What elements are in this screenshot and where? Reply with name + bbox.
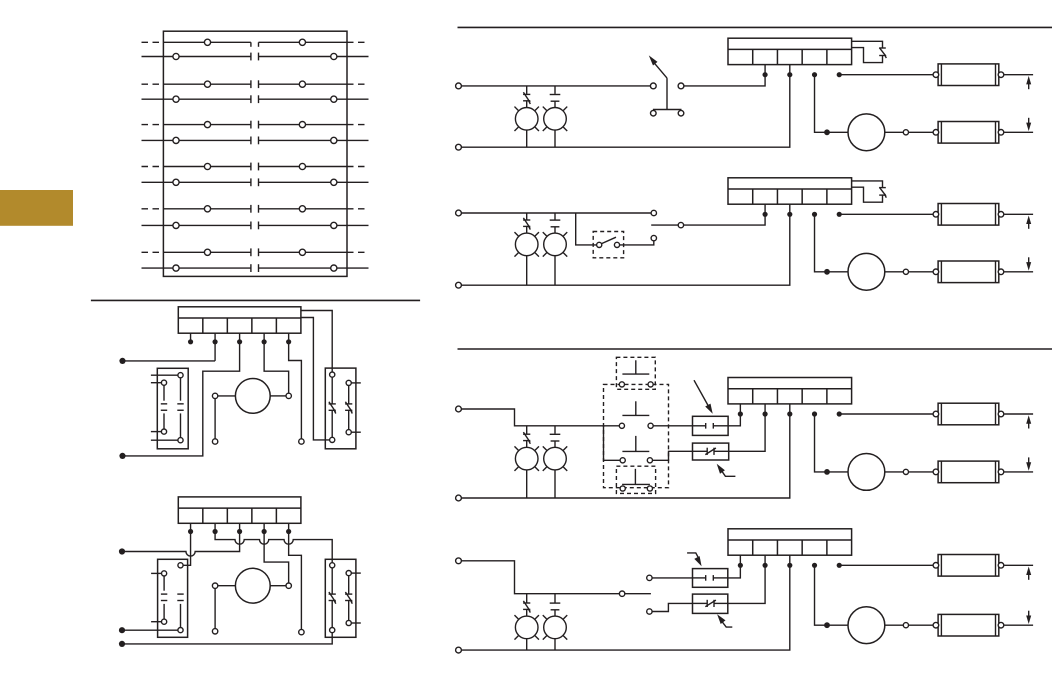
wire terminal 1 to LB2 top-right contact — [183, 532, 191, 566]
TB-C outline — [728, 378, 852, 404]
TB1 cell divider 4 — [275, 318, 277, 333]
bypass switch dashed enclosure — [593, 232, 623, 258]
row 7 terminals — [204, 163, 210, 169]
row 2 terminals — [173, 53, 179, 59]
arrow to coil box — [687, 553, 700, 560]
H2A output wire — [1004, 131, 1033, 133]
TB2 strip divider — [178, 507, 301, 509]
pushbutton station dashed enclosure — [604, 384, 669, 487]
arrow to coil box — [694, 380, 709, 408]
wire row 6 (solid leads) — [142, 139, 251, 141]
heater H2A body — [938, 122, 999, 144]
up arrow — [1028, 573, 1030, 580]
wire terminal 4 to motor — [264, 342, 289, 393]
overload box RB2 outline — [325, 559, 356, 637]
selector throw contact down — [647, 609, 652, 614]
wire row 5 (dashed leads) — [142, 124, 164, 126]
wire terminal 2 to RB2 top (with hops) — [215, 532, 332, 563]
motor output terminal — [903, 623, 908, 628]
supply terminal top — [456, 83, 462, 89]
TB-A cell divider 4 — [826, 49, 828, 64]
heater H2C body — [938, 461, 999, 483]
middle diagram 1 — [119, 307, 360, 459]
TB-C terminal dot 3 — [787, 411, 792, 416]
wire S1 to terminal 2 — [684, 65, 765, 86]
supply terminal top — [456, 210, 462, 216]
motor output terminal — [903, 269, 908, 274]
LB2 contact column left — [162, 571, 167, 576]
TB-D strip divider — [728, 539, 852, 541]
heater H2C terminals — [933, 469, 939, 475]
bottom supply wire — [461, 404, 789, 498]
TB-B cell divider 1 — [752, 189, 754, 204]
circuit row 2 — [456, 178, 1034, 290]
TB1 outline — [178, 307, 301, 333]
row 5 terminals — [204, 122, 210, 128]
heater H1A body — [938, 64, 999, 86]
pilot lamp B — [554, 426, 556, 434]
switch box LB2 outline — [158, 559, 188, 637]
node supply L3 — [119, 641, 125, 647]
heater H2B body — [938, 261, 999, 283]
motor left terminal — [212, 393, 217, 398]
top supply wire — [461, 85, 650, 87]
wire PB3 to overload box — [653, 451, 693, 460]
LB2 contact column right — [177, 593, 183, 595]
row 1 center gap ticks — [250, 42, 252, 47]
lamp A bottom lead — [526, 130, 528, 147]
TB-A terminal dot 4 — [812, 72, 817, 77]
heater H1D terminals — [933, 563, 939, 569]
selector throw contact up — [647, 575, 652, 580]
start pushbutton PB2 — [635, 401, 637, 415]
TB-B cell divider 2 — [776, 189, 778, 204]
overload box RB1 outline — [325, 368, 356, 449]
wire row 3 (dashed leads) — [142, 83, 164, 85]
wire throw-down to overload box — [652, 603, 692, 611]
LB2 top-right contact — [178, 563, 183, 568]
heater H2D end bars — [940, 614, 942, 636]
RB1 overload B (right column) — [346, 380, 351, 385]
TB-C cell divider 2 — [776, 389, 778, 404]
TB-B cell divider 3 — [801, 189, 803, 204]
H1D output wire — [1004, 564, 1033, 566]
coil box C1 outline — [693, 416, 729, 435]
TB-A terminal dot 2 — [762, 72, 767, 77]
heater H2B end bars — [940, 261, 942, 283]
TB2 cell divider 3 — [251, 508, 253, 523]
lamp A bottom lead — [526, 470, 528, 498]
RB2 lead stubs — [351, 572, 361, 574]
heater H1C body — [938, 403, 999, 425]
pilot lamp A — [526, 426, 528, 434]
breaker loop wires — [852, 181, 883, 188]
heater H2C end bars — [940, 461, 942, 483]
coil contact plates — [693, 425, 706, 427]
connector grid diagram — [142, 31, 369, 276]
wire overload box to terminal 2 — [728, 555, 765, 603]
heater H1B end bars — [940, 204, 942, 226]
row 7 center gap ticks — [250, 163, 252, 171]
TB1 terminal stub 1 — [190, 333, 192, 342]
row 11 center gap ticks — [250, 248, 252, 256]
bottom supply wire — [461, 65, 789, 148]
wire coil box to terminal 1 — [728, 404, 740, 426]
pilot lamp A — [526, 213, 528, 220]
wire row 8 (solid leads) — [142, 181, 251, 183]
TB-C strip divider — [728, 388, 852, 390]
lamp B bottom lead — [554, 470, 556, 498]
wire row 7 (dashed leads) — [142, 166, 164, 168]
up arrow — [1028, 222, 1030, 229]
TB-B outline — [728, 178, 852, 204]
S1 lower terminals — [651, 110, 657, 116]
junction node — [824, 622, 830, 628]
LB1 contact B (left column) — [161, 380, 166, 385]
TB-C cell divider 1 — [752, 389, 754, 404]
motor output wire — [885, 624, 904, 626]
up arrow — [1028, 422, 1030, 429]
RB1 lead stubs — [351, 382, 361, 384]
jog pushbutton PB1 — [635, 360, 637, 374]
motor left terminal — [212, 583, 217, 588]
breaker slash symbol — [879, 47, 886, 49]
heater H1A terminals — [933, 72, 939, 78]
heater H1B terminals — [933, 212, 939, 218]
motor B1 — [235, 379, 270, 414]
H2C output wire — [1004, 471, 1033, 473]
bypass output wire — [620, 241, 654, 245]
lamp B bottom lead — [554, 256, 556, 286]
wire terminal 5 to heater H1B — [839, 213, 933, 215]
wire terminal 5 to heater H1C — [839, 413, 933, 415]
motor output wire — [885, 271, 904, 273]
pilot lamp A — [526, 86, 528, 94]
row 3 terminals — [204, 81, 210, 87]
wire to heater H2D — [909, 624, 934, 626]
wire terminal 4 to motorD — [815, 565, 849, 625]
supply terminal bottom — [456, 495, 462, 501]
row 9 terminals — [204, 206, 210, 212]
motor left test lead — [214, 588, 216, 628]
down arrow — [1028, 611, 1030, 618]
coil box C2 outline — [693, 569, 728, 588]
heater H1D end bars — [940, 555, 942, 577]
TB-C cell divider 4 — [826, 389, 828, 404]
motorC — [848, 454, 885, 491]
heater H1A end bars — [940, 64, 942, 86]
wire coil box to terminal 1 — [728, 555, 741, 578]
start pushbutton PB3 — [635, 436, 637, 452]
row 6 center gap ticks — [250, 137, 252, 145]
TB1 cell divider 3 — [251, 318, 253, 333]
breaker slash symbol — [879, 187, 886, 189]
TB-B terminal dot 2 — [762, 212, 767, 217]
gold page tab — [0, 190, 73, 226]
wire to heater H2C — [909, 471, 934, 473]
TB-A cell divider 1 — [752, 49, 754, 64]
wire TB1 strip to RB1 bottom — [301, 318, 330, 440]
middle right rule — [458, 348, 1052, 350]
wire terminal 4 to motorA — [815, 75, 849, 133]
TB2 cell divider 4 — [275, 508, 277, 523]
node supply L2 — [119, 627, 125, 633]
TB-B cell divider 4 — [826, 189, 828, 204]
down arrow — [1028, 457, 1030, 464]
supply terminal bottom — [456, 144, 462, 150]
row 10 center gap ticks — [250, 222, 252, 230]
up arrow — [1028, 83, 1030, 90]
overload box O2 outline — [693, 594, 728, 613]
row 6 terminals — [173, 137, 179, 143]
TB-D terminal dot 3 — [787, 563, 792, 568]
coil contact plates — [693, 577, 706, 579]
wire to heater H2A — [909, 131, 934, 133]
junction node — [824, 129, 830, 135]
heater H1C terminals — [933, 411, 939, 417]
bottom supply wire — [461, 204, 789, 285]
circuit row 3 — [456, 357, 1034, 501]
node supply L1 — [119, 548, 125, 554]
wire terminal 5 to test point — [289, 342, 302, 439]
heater H1C end bars — [940, 403, 942, 425]
row 3 center gap ticks — [250, 80, 252, 88]
row 12 terminals — [173, 265, 179, 271]
TB-D terminal dot 2 — [762, 563, 767, 568]
row 11 terminals — [204, 249, 210, 255]
TB2 cell divider 1 — [202, 508, 204, 523]
wire terminal 4 to motor right — [264, 532, 289, 584]
TB1 terminal stub 3 — [239, 333, 241, 342]
lamp A bottom lead — [526, 256, 528, 286]
heater H1D body — [938, 555, 999, 577]
TB-D terminal dot 4 — [812, 563, 817, 568]
selector contact top — [651, 210, 656, 215]
TB-B terminal dot 4 — [812, 212, 817, 217]
TB-D cell divider 3 — [801, 540, 803, 555]
breaker loop wires — [852, 41, 883, 48]
pilot lamp B — [554, 213, 556, 220]
wire overload box to terminal 2 — [729, 404, 765, 451]
wire L2 to LB2 bottom-right contact — [122, 629, 178, 631]
motor left test lead — [214, 399, 216, 439]
node supply L1 — [119, 358, 125, 364]
wire to manual bypass switch — [576, 213, 597, 245]
row 9 center gap ticks — [250, 205, 252, 213]
junction node — [824, 469, 830, 475]
TB-A strip divider — [728, 48, 852, 50]
TB1 strip divider — [178, 317, 301, 319]
wire row 10 (solid leads) — [142, 224, 251, 226]
row 8 terminals — [173, 179, 179, 185]
wire row 12 (solid leads) — [142, 267, 251, 269]
LB1 lead stubs — [151, 374, 178, 376]
TB1 terminal stub 5 — [288, 333, 290, 342]
motorD — [848, 607, 885, 644]
bypass switch contacts — [597, 242, 602, 247]
LB1 contact A (right column) — [178, 373, 183, 378]
selector contact bottom — [651, 235, 656, 240]
wire PB2 to contactor coil box — [653, 425, 692, 427]
TB-C cell divider 3 — [801, 389, 803, 404]
TB-D cell divider 4 — [826, 540, 828, 555]
down arrow — [1028, 118, 1030, 125]
TB-D cell divider 1 — [752, 540, 754, 555]
jog pushbutton dashed enclosure — [616, 357, 655, 389]
row 8 center gap ticks — [250, 178, 252, 186]
circuit row 4 — [456, 529, 1034, 653]
supply terminal bottom — [456, 282, 462, 288]
H1C output wire — [1004, 413, 1033, 415]
overload box symbol — [693, 602, 708, 604]
riser wire to PB3 — [604, 426, 621, 461]
H2B output wire — [1004, 271, 1033, 273]
TB-D outline — [728, 529, 852, 555]
row 5 center gap ticks — [250, 121, 252, 129]
RB1 overload A (left column) — [330, 372, 335, 377]
wire terminal 4 to motorC — [815, 414, 849, 472]
top supply wire with jog — [461, 409, 619, 426]
TB2 outline — [178, 497, 301, 523]
TB-D terminal dot 5 — [837, 563, 842, 568]
wire to heater H2B — [909, 271, 934, 273]
left separator rule — [91, 299, 420, 301]
test point — [299, 629, 304, 634]
bypass switch blade — [602, 237, 616, 243]
lamp A bottom lead — [526, 639, 528, 650]
wire row 4 (solid leads) — [142, 98, 251, 100]
heater H1B body — [938, 204, 999, 226]
TB-A terminal dot 5 — [837, 72, 842, 77]
wire terminal 5 to heater H1A — [839, 74, 933, 76]
TB1 cell divider 2 — [226, 318, 228, 333]
TB-B strip divider — [728, 188, 852, 190]
wire terminal 4 to motorB — [815, 214, 849, 271]
motorB — [848, 253, 885, 290]
node supply L2 — [119, 453, 125, 459]
RB2 overload B (right column) — [346, 571, 351, 576]
TB2 terminal stub 3 — [239, 523, 241, 531]
top right rule — [458, 26, 1052, 28]
stop pushbutton dashed enclosure — [616, 466, 655, 493]
stop pushbutton PB4 — [634, 469, 636, 485]
motor output wire — [885, 131, 904, 133]
bottom supply wire — [461, 555, 789, 650]
switch box LB1 outline — [157, 368, 188, 449]
TB1 terminal stub 2 — [214, 333, 216, 342]
TB2 cell divider 2 — [226, 508, 228, 523]
heater H2D body — [938, 614, 999, 636]
wire terminal 5 to heater H1D — [839, 564, 933, 566]
junction node — [824, 269, 830, 275]
H2D output wire — [1004, 624, 1033, 626]
supply terminal bottom — [456, 647, 462, 653]
TB1 terminal stub 4 — [263, 333, 265, 342]
TB-A outline — [728, 38, 852, 64]
row 12 center gap ticks — [250, 264, 252, 272]
wire TB1 strip to RB1 top — [301, 311, 332, 373]
test point — [299, 439, 304, 444]
TB-A cell divider 2 — [776, 49, 778, 64]
row 2 center gap ticks — [250, 53, 252, 61]
motor right terminal — [286, 583, 291, 588]
row 4 terminals — [173, 96, 179, 102]
row 10 terminals — [173, 222, 179, 228]
TB-C terminal dot 4 — [812, 411, 817, 416]
row 1 terminals — [204, 39, 210, 45]
TB-A terminal dot 3 — [787, 72, 792, 77]
H1A output wire — [1004, 74, 1033, 76]
wire selector to terminal 2 — [684, 204, 765, 225]
heater H2A terminals — [933, 130, 939, 136]
wire row 9 (dashed leads) — [142, 208, 164, 210]
wire L1 to terminal 2 — [123, 360, 216, 362]
connector outline box — [163, 31, 347, 276]
TB1 cell divider 1 — [202, 318, 204, 333]
circuit row 1 — [456, 38, 1034, 151]
wire L1 to terminal 3 (hop over terminal1 wire) — [122, 532, 240, 557]
motor output terminal — [903, 130, 908, 135]
supply terminal top — [456, 558, 462, 564]
TB2 terminal stub 5 — [288, 523, 290, 531]
wire row 2 (solid leads) — [142, 56, 251, 58]
top supply wire — [461, 212, 651, 214]
TB-C terminal dot 5 — [837, 411, 842, 416]
overload box symbol — [693, 450, 708, 452]
heater H2B terminals — [933, 269, 939, 275]
TB-C terminal dot 1 — [738, 411, 743, 416]
heater H2A end bars — [940, 122, 942, 144]
motor B2 — [235, 568, 270, 603]
wire terminal 5 to test point — [289, 532, 302, 630]
wire row 1 (dashed leads) — [142, 41, 164, 43]
down arrow — [1028, 257, 1030, 264]
motor output wire — [885, 471, 904, 473]
LB2 lead stubs — [151, 572, 161, 574]
lamp B bottom lead — [554, 639, 556, 650]
toggle switch S1 contacts — [650, 83, 656, 89]
TB2 terminal stub 1 — [190, 523, 192, 531]
lamp B bottom lead — [554, 130, 556, 147]
top supply wire with jog — [461, 561, 651, 594]
RB2 overload A (left column) — [330, 563, 335, 568]
TB-A cell divider 3 — [801, 49, 803, 64]
arrow to overload box — [720, 619, 732, 627]
row 4 center gap ticks — [250, 95, 252, 103]
selector pole — [651, 224, 678, 226]
wire throw-up to coil box — [652, 577, 692, 579]
overload box O1 outline — [693, 443, 729, 460]
TB-B terminal dot 5 — [837, 212, 842, 217]
S1 actuator — [666, 78, 668, 109]
wire L3 to RB2 bottom — [122, 633, 332, 644]
TB-D terminal dot 1 — [738, 563, 743, 568]
TB2 terminal stub 2 — [214, 523, 216, 531]
supply terminal top — [456, 406, 462, 412]
motorA — [848, 114, 885, 151]
TB-C terminal dot 2 — [762, 411, 767, 416]
pilot lamp A — [526, 594, 528, 603]
middle diagram 2 — [119, 497, 361, 647]
pilot lamp B — [554, 86, 556, 94]
selector pole contact — [619, 591, 624, 596]
pilot lamp B — [554, 594, 556, 603]
TB2 terminal stub 4 — [263, 523, 265, 531]
motor output terminal — [903, 469, 908, 474]
heater H2D terminals — [933, 622, 939, 628]
TB-B terminal dot 3 — [787, 212, 792, 217]
arrow to overload box — [720, 468, 736, 476]
